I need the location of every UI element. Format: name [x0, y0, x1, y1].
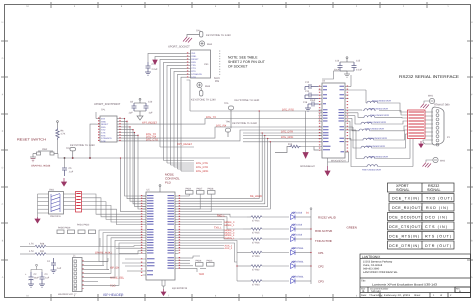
LED D4 — [291, 247, 296, 255]
svg-text:47 R16: 47 R16 — [252, 242, 260, 245]
svg-text:SW1: SW1 — [49, 189, 55, 192]
table text — [389, 184, 452, 248]
svg-text:RXD: RXD — [191, 61, 196, 64]
svg-text:FB2 H2506021R2R: FB2 H2506021R2R — [369, 107, 389, 110]
svg-text:TXD ACTIVE: TXD ACTIVE — [315, 239, 332, 243]
svg-text:4.7K: 4.7K — [29, 243, 34, 246]
svg-text:FB1 H2506021R2R: FB1 H2506021R2R — [372, 100, 392, 103]
svg-text:FB9 H2506021R2R: FB9 H2506021R2R — [362, 169, 382, 172]
LED D1 — [291, 212, 296, 220]
pad PAD6 PAD3 row lower — [196, 260, 214, 263]
mounting hole MH4 — [199, 41, 204, 46]
resistor pack RP highlighted red block at DB9 — [408, 110, 426, 139]
svg-text:LANTRONIX: LANTRONIX — [362, 255, 381, 259]
vcc above top caps — [340, 57, 354, 62]
resistor R31 4.7K horizontal — [20, 253, 76, 256]
svg-text:.1uF: .1uF — [69, 171, 74, 174]
pin number ticks U2 left — [319, 86, 321, 152]
wire vcc to U2 top — [322, 71, 351, 87]
ferrite bead FB1 — [349, 90, 408, 112]
svg-text:XPORT_FOOTPRINT: XPORT_FOOTPRINT — [94, 103, 121, 106]
svg-text:MH4: MH4 — [207, 43, 213, 46]
svg-text:1uF: 1uF — [149, 112, 154, 115]
PLD bottom pins and ground — [162, 280, 165, 289]
svg-text:Lantronix XPort Evaluation Boa: Lantronix XPort Evaluation Board 530-143 — [372, 283, 438, 287]
reset net wire — [58, 140, 231, 212]
socket pin dot column — [219, 51, 221, 77]
svg-text:HEADER 5X2 .1": HEADER 5X2 .1" — [58, 293, 77, 296]
svg-text:47 R14: 47 R14 — [252, 220, 260, 223]
svg-text:NOTE: SEE TABLE: NOTE: SEE TABLE — [228, 56, 258, 60]
svg-text:LANTRONIX CONFIDENTIAL: LANTRONIX CONFIDENTIAL — [363, 271, 398, 274]
svg-text:LNJ314G8: LNJ314G8 — [291, 234, 303, 237]
wires DIP to RP1 — [64, 194, 76, 209]
svg-text:RTS (OUT): RTS (OUT) — [425, 235, 451, 239]
pin number ticks U2 right — [346, 86, 348, 154]
svg-text:TP1: TP1 — [101, 109, 106, 112]
svg-text:XS1: XS1 — [204, 63, 209, 66]
LED row 4 CP1 — [237, 251, 289, 254]
capacitor C12 left of U2 — [305, 84, 319, 90]
staircase wires RP1 to PLD area — [82, 194, 143, 225]
svg-text:XPT_RESET: XPT_RESET — [142, 122, 158, 125]
wires footprint to right and down to PLD — [121, 119, 160, 210]
svg-text:DTE_DTR: DTE_DTR — [281, 130, 293, 133]
svg-text:PLD: PLD — [165, 181, 172, 185]
svg-text:PAD4: PAD4 — [186, 188, 193, 191]
svg-text:Date:: Date: — [361, 294, 367, 297]
ferrite bead FB3 — [349, 113, 408, 118]
svg-text:DTR: DTR — [191, 76, 196, 79]
pad boxes row above ISP header — [57, 230, 96, 234]
ferrite bead FB6 — [349, 121, 408, 140]
svg-text:10uF: 10uF — [34, 277, 40, 280]
border zone tick marks bottom — [51, 294, 333, 301]
wire stair from PLD to LED rows — [179, 214, 248, 281]
svg-text:SW DIP-6: SW DIP-6 — [50, 215, 61, 218]
svg-text:Title: Title — [361, 280, 366, 283]
svg-text:ispLSI2032-B: ispLSI2032-B — [172, 287, 187, 290]
mounting hole MH1 with ground — [429, 98, 434, 103]
capacitor C4 by header — [51, 258, 57, 273]
DIP switch SW1 body — [49, 192, 64, 215]
svg-text:C13: C13 — [335, 60, 340, 63]
U2 pin name smudges — [323, 86, 344, 153]
svg-text:FB6 H2506021R2R: FB6 H2506021R2R — [368, 137, 388, 140]
svg-text:RESET: RESET — [101, 123, 109, 126]
ground left of switch — [30, 154, 36, 162]
svg-text:LNJ314G8: LNJ314G8 — [291, 212, 303, 215]
svg-text:RTS: RTS — [191, 70, 196, 73]
svg-text:47 R22: 47 R22 — [252, 269, 260, 272]
title block text — [361, 255, 461, 297]
svg-text:PIN: PIN — [215, 80, 219, 83]
ferrite bead FB9 bottom — [349, 139, 414, 167]
svg-text:SP0503BAHT: SP0503BAHT — [300, 165, 315, 168]
U2 left pin stubs — [319, 87, 323, 151]
svg-text:TP3: TP3 — [196, 30, 201, 33]
pin number ticks PLD left — [141, 195, 143, 276]
DIP switch left wires to ground — [38, 194, 49, 217]
svg-text:TDO: TDO — [199, 273, 204, 276]
ferrite bead FB7 — [349, 127, 408, 148]
svg-text:MODE_SEL: MODE_SEL — [110, 276, 125, 279]
ferrite bead FB8 — [349, 130, 411, 159]
title block — [360, 254, 471, 298]
svg-text:R13: R13 — [288, 143, 293, 146]
test point TP6 — [225, 128, 230, 137]
svg-text:FEMALE DB9: FEMALE DB9 — [434, 104, 450, 107]
net labels right of PLD — [225, 221, 236, 250]
ground arrow on socket GND pin — [153, 60, 157, 65]
svg-text:G: G — [2, 57, 4, 60]
module XP1 xport footprint body — [100, 116, 117, 142]
svg-text:DTR&DCD: DTR&DCD — [101, 137, 112, 140]
svg-text:PAD7: PAD7 — [197, 188, 204, 191]
svg-text:XPT_RESET: XPT_RESET — [177, 143, 193, 146]
header J1 right wires with labels — [82, 258, 109, 285]
ground arrow above DIP switch — [62, 178, 67, 186]
wires PLD right side lower to pads and TDO — [179, 256, 207, 272]
long wires right to RS232 chip — [0, 0, 1, 1]
LED D2 — [291, 224, 296, 232]
svg-text:FB4 H2506021R2R: FB4 H2506021R2R — [367, 121, 387, 124]
svg-text:RS_VALID: RS_VALID — [250, 195, 262, 198]
svg-text:DTE_DCD: DTE_DCD — [196, 170, 208, 173]
socket XS1 pin names — [191, 52, 202, 79]
signal cross-reference table — [388, 183, 455, 249]
svg-text:TDO: TDO — [110, 284, 115, 287]
svg-text:OF SOCKET: OF SOCKET — [228, 65, 248, 69]
svg-text:DTR: DTR — [101, 140, 106, 143]
svg-text:TXD_L: TXD_L — [214, 226, 222, 229]
wire bundle from socket pins stepping down-left — [148, 53, 187, 171]
svg-text:Thursday, February 20, 2003: Thursday, February 20, 2003 — [369, 294, 411, 297]
svg-text:CTS: CTS — [191, 67, 196, 70]
wire U2 bottom to ground — [301, 147, 349, 167]
wires red block to DB9 pins — [423, 112, 433, 144]
svg-text:LNJ937W8L: LNJ937W8L — [291, 261, 304, 264]
svg-text:TXD (OUT): TXD (OUT) — [426, 197, 452, 201]
svg-text:RESET: RESET — [191, 58, 199, 61]
svg-text:RXD (IN): RXD (IN) — [426, 206, 448, 210]
connector XS1 xport socket — [191, 50, 211, 78]
svg-text:C12: C12 — [305, 81, 310, 84]
ground below red block — [419, 141, 423, 148]
capacitor C7 left of socket — [145, 62, 151, 75]
capacitor C10 above footprint — [144, 103, 149, 111]
svg-text:.1uF: .1uF — [57, 267, 62, 270]
LED D5 — [291, 261, 296, 269]
header J1 ISP body — [73, 258, 83, 292]
svg-text:A: A — [459, 290, 461, 293]
svg-text:DTE_RTS: DTE_RTS — [282, 108, 294, 111]
ferrite bead FB2 — [349, 109, 408, 115]
svg-text:LNJ937W8L: LNJ937W8L — [291, 276, 304, 279]
mounting hole MH3 — [197, 82, 202, 87]
svg-text:DCD (IN): DCD (IN) — [425, 216, 447, 220]
wires resistor nets to PLD left pins — [94, 246, 143, 254]
svg-text:PAD5 PAD9: PAD5 PAD9 — [58, 227, 71, 230]
svg-text:DCE_RTS(IN): DCE_RTS(IN) — [389, 235, 419, 239]
svg-text:RXD ACTIVE: RXD ACTIVE — [315, 229, 332, 233]
svg-text:DCE_CTS(OUT): DCE_CTS(OUT) — [389, 225, 422, 229]
svg-text:GRAYHILL 96D36: GRAYHILL 96D36 — [31, 165, 51, 168]
svg-text:TXD: TXD — [101, 129, 106, 132]
capacitor C15 0.1uF top — [352, 62, 357, 71]
svg-text:RXD: RXD — [101, 126, 106, 129]
svg-text:SIGNAL: SIGNAL — [396, 188, 410, 192]
svg-text:TXD: TXD — [191, 64, 196, 67]
wire spare aux — [76, 238, 100, 254]
svg-text:KEYSTONE TH 1240: KEYSTONE TH 1240 — [232, 122, 257, 125]
svg-text:KEYSTONE TH 1240: KEYSTONE TH 1240 — [206, 34, 231, 37]
DIP switch actuators — [51, 194, 60, 213]
svg-text:GND: GND — [191, 55, 196, 58]
svg-text:DTE_DTR: DTE_DTR — [196, 166, 208, 169]
svg-text:DCE_DTR(IN): DCE_DTR(IN) — [389, 244, 419, 248]
svg-text:0.1uF: 0.1uF — [356, 69, 362, 72]
svg-text:GREEN: GREEN — [347, 225, 357, 229]
svg-text:CTS (IN): CTS (IN) — [425, 225, 447, 229]
LED row 5 CP2 — [237, 265, 289, 268]
capacitor C8 above footprint — [132, 103, 137, 111]
common anode vertical wire for LEDs — [310, 208, 312, 284]
ground arrow below U2 — [325, 166, 330, 176]
LED row 3 TXD ACTIVE — [240, 238, 290, 241]
LED row 1 RS232 VALID — [247, 216, 289, 219]
wires DTE_TX/RX long to RS232 chip — [160, 119, 322, 141]
PLD U1 right pin stubs — [175, 196, 179, 268]
svg-text:TP5: TP5 — [224, 102, 229, 105]
svg-text:DCE_DCD(OUT): DCE_DCD(OUT) — [389, 216, 422, 220]
LED D6 — [291, 276, 296, 284]
ground below caps — [134, 111, 146, 120]
vcc above PLD — [159, 185, 161, 192]
svg-text:2.2uF: 2.2uF — [152, 68, 158, 71]
svg-text:DCE_RX(OUT): DCE_RX(OUT) — [392, 206, 422, 210]
svg-text:CP2: CP2 — [318, 265, 324, 269]
border zone tick marks top — [51, 2, 427, 8]
test point TP4 below socket — [200, 88, 203, 96]
svg-text:CP1: CP1 — [318, 251, 324, 255]
capacitor C14 left of U2 — [305, 93, 319, 99]
svg-text:DTE_DCD: DTE_DCD — [281, 136, 293, 139]
svg-text:LNJ314G8: LNJ314G8 — [291, 224, 303, 227]
capacitor C3 .1uF bottom left — [39, 272, 45, 287]
svg-text:Sheet: Sheet — [414, 294, 421, 297]
svg-text:DTE_TX: DTE_TX — [206, 116, 216, 119]
pin number ticks PLD right — [178, 195, 180, 270]
capacitor C13 22uF top — [338, 62, 343, 71]
svg-text:CP3: CP3 — [318, 280, 324, 284]
LED row 2 RXD ACTIVE — [243, 228, 289, 231]
svg-text:MH3: MH3 — [205, 85, 211, 88]
connector P1 female DB9 — [432, 107, 444, 145]
wire vcc to caps bottom left — [31, 264, 42, 272]
wires PLD lower-left pins to ISP header — [99, 230, 143, 285]
svg-text:LNJ937W8L: LNJ937W8L — [291, 247, 304, 250]
svg-text:DTE_RTS: DTE_RTS — [196, 162, 208, 165]
svg-text:DTE_RX: DTE_RX — [216, 124, 227, 127]
ground near socket top — [183, 37, 192, 43]
svg-text:22uF: 22uF — [310, 99, 316, 102]
svg-text:.1uF: .1uF — [128, 112, 133, 115]
svg-text:of: of — [440, 294, 442, 297]
svg-text:.1uF: .1uF — [45, 277, 50, 280]
svg-text:TP6: TP6 — [226, 121, 231, 124]
svg-text:PWDN_L: PWDN_L — [225, 237, 236, 240]
wires PLD right pins upper to pads — [179, 194, 225, 248]
DB9 pin circles — [436, 110, 439, 146]
label MODE CONTROL PLD — [165, 173, 180, 185]
svg-text:B: B — [363, 289, 365, 293]
resistor R28 4.7K horizontal — [20, 245, 100, 248]
LED D3 — [291, 234, 296, 242]
svg-text:R31: R31 — [40, 250, 45, 253]
svg-text:PAD1 PAD2: PAD1 PAD2 — [77, 224, 90, 227]
svg-text:GND: GND — [101, 120, 106, 123]
header J1 pin squares — [74, 260, 77, 290]
svg-text:FB7 H2506021R2R: FB7 H2506021R2R — [366, 145, 386, 148]
svg-text:C14: C14 — [305, 90, 310, 93]
svg-text:DTE_CTS: DTE_CTS — [146, 138, 158, 141]
LED row 6 CP3 — [237, 280, 289, 283]
svg-text:RS232 VALID: RS232 VALID — [318, 216, 336, 220]
ground arrow below DIP left — [35, 217, 40, 223]
svg-text:47 R15: 47 R15 — [252, 232, 260, 235]
svg-text:FB5 H2506021R2R: FB5 H2506021R2R — [365, 128, 385, 131]
resistor R6 4.7K vertical — [56, 128, 59, 140]
U2 right pin stubs — [345, 87, 349, 153]
note text — [228, 56, 265, 69]
svg-text:KEYSTONE TH 1240: KEYSTONE TH 1240 — [70, 144, 95, 147]
PLD ground arrow — [161, 289, 166, 296]
pad PAD4 PAD7 PAD8 row top — [186, 188, 215, 191]
pin number ticks footprint XP1 — [99, 118, 120, 142]
footprint left pin stubs — [96, 112, 100, 124]
svg-text:CTS: CTS — [101, 132, 106, 135]
footprint XP1 pin names — [101, 118, 112, 143]
svg-text:4.7K: 4.7K — [61, 133, 66, 136]
vcc for pullup R6 — [57, 121, 59, 128]
svg-text:SW2: SW2 — [42, 148, 48, 151]
transceiver U2 body MAX3237 — [322, 83, 345, 158]
svg-text:DTR&DCD: DTR&DCD — [191, 73, 202, 76]
capacitor C16 22uF left — [305, 102, 319, 112]
vcc bar above caps — [134, 98, 146, 103]
svg-text:G: G — [471, 57, 473, 60]
svg-text:SHEET 2 FOR PIN OUT: SHEET 2 FOR PIN OUT — [228, 60, 265, 64]
pin number ticks socket XS1 — [187, 52, 189, 78]
svg-text:C15: C15 — [356, 60, 361, 63]
wires socket bundle turning right with net labels — [160, 147, 194, 171]
svg-text:RXD_L: RXD_L — [217, 215, 226, 218]
svg-text:4.7K: 4.7K — [29, 250, 34, 253]
svg-text:RTS: RTS — [101, 134, 106, 137]
capacitor C5 on reset net — [62, 168, 67, 176]
switch SW2 pushbutton — [33, 151, 58, 155]
ferrite bead FB5 — [349, 118, 408, 130]
svg-text:SIGNAL: SIGNAL — [427, 188, 441, 192]
svg-text:47 R20: 47 R20 — [252, 255, 260, 258]
svg-text:KEYSTONE TH 1240: KEYSTONE TH 1240 — [191, 99, 216, 102]
resistor R13 at FORCEOFF — [275, 145, 319, 152]
svg-text:MH1: MH1 — [428, 95, 434, 98]
border zone tick marks right — [467, 41, 473, 260]
svg-text:ISP_EN: ISP_EN — [110, 266, 119, 269]
svg-text:DTR (OUT): DTR (OUT) — [425, 244, 451, 248]
wires DTE_RTS/DTE_CTS into transceiver — [179, 80, 323, 209]
svg-text:47 R23: 47 R23 — [252, 284, 260, 287]
wire reset into footprint area — [89, 124, 96, 159]
ground arrow TVS SP0503 — [303, 153, 308, 159]
PLD U1 pin name columns (tiny) — [147, 195, 174, 275]
svg-text:FB3 H2506021R2R: FB3 H2506021R2R — [370, 114, 390, 117]
capacitor C2 10uF bottom left — [28, 272, 34, 287]
svg-text:MODE_1: MODE_1 — [225, 224, 236, 227]
svg-text:R28: R28 — [40, 243, 45, 246]
test point TP3 top — [187, 32, 203, 38]
svg-text:KEYSTONE TH 1240: KEYSTONE TH 1240 — [235, 99, 260, 102]
svg-text:C10: C10 — [148, 101, 153, 104]
svg-text:XPORT_SOCKET: XPORT_SOCKET — [168, 46, 190, 49]
footprint XP1 right pin stubs — [117, 119, 121, 141]
svg-text:530-143: 530-143 — [371, 290, 381, 293]
ferrite bead FB4 — [349, 116, 408, 124]
svg-text:RS232 SERIAL INTERFACE: RS232 SERIAL INTERFACE — [399, 74, 459, 79]
pin number ticks header J1 — [82, 260, 84, 289]
svg-text:ISP HEADER: ISP HEADER — [103, 293, 124, 297]
border zone tick marks left — [1, 41, 8, 260]
ground below top caps — [340, 71, 354, 77]
svg-text:DCE_TX(IN): DCE_TX(IN) — [392, 197, 419, 201]
svg-text:MH2: MH2 — [440, 160, 446, 163]
resistor pack RP1 red block — [76, 192, 82, 213]
svg-text:C16: C16 — [303, 101, 308, 104]
socket XS1 pin stubs — [187, 53, 191, 77]
PLD U1 body — [146, 192, 175, 280]
svg-text:PAD8: PAD8 — [208, 188, 215, 191]
svg-text:FB8 H2506021R2R: FB8 H2506021R2R — [369, 155, 389, 158]
PLD U1 left pin stubs — [143, 196, 147, 275]
svg-text:AUX_2: AUX_2 — [225, 247, 233, 250]
svg-text:RESET SWITCH: RESET SWITCH — [17, 138, 46, 142]
mounting hole MH2 with ground — [433, 157, 438, 162]
